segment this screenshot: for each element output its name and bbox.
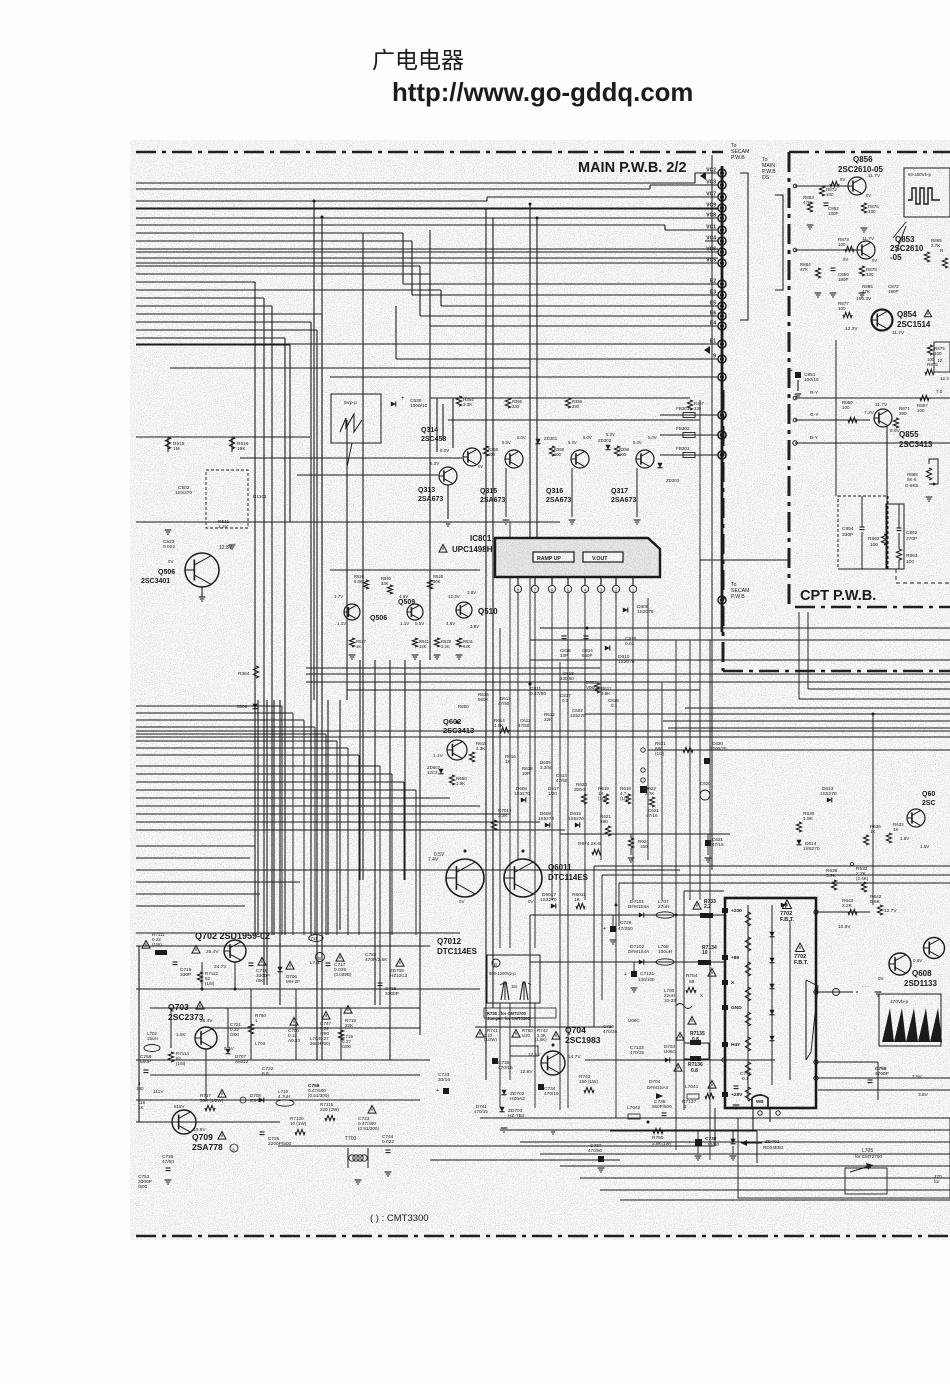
svg-text:广电电器: 广电电器: [372, 48, 464, 73]
svg-text:http://www.go-gddq.com: http://www.go-gddq.com: [392, 79, 693, 107]
